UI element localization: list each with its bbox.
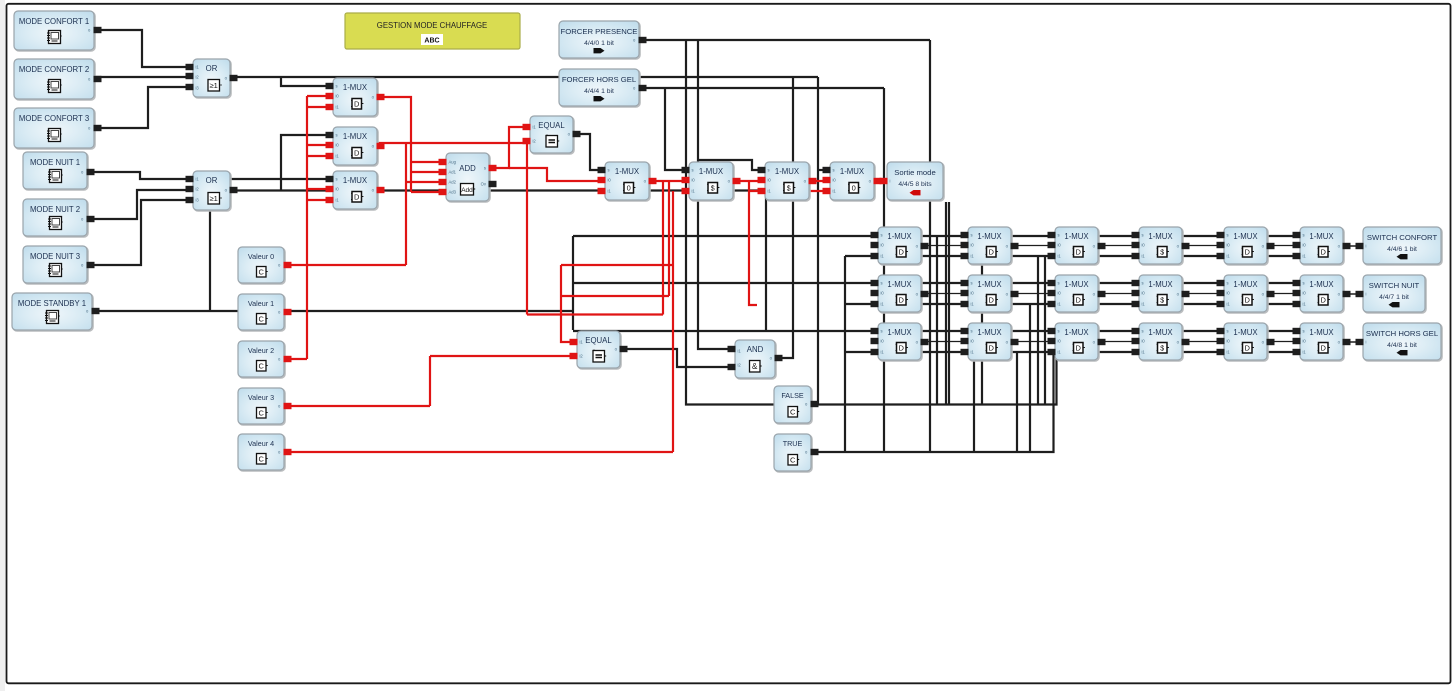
wire v-MUX1i0 [307, 95, 335, 97]
wire i0link [1267, 293, 1300, 295]
svg-text:s: s [1142, 329, 1144, 334]
wire MUX6-MUX7 [730, 180, 767, 182]
wire trunk-1030 [1029, 304, 1031, 452]
wire MC2-OR1 [94, 76, 195, 78]
wire v-MUX3i1 [307, 199, 335, 201]
svg-text:SWITCH CONFORT: SWITCH CONFORT [1367, 233, 1438, 242]
svg-text:s: s [336, 84, 338, 89]
svg-text:Valeur 2: Valeur 2 [248, 346, 274, 355]
block SWITCH HORS GEL [1363, 323, 1442, 361]
wire MSTBY [92, 310, 573, 312]
svg-text:s: s [833, 168, 835, 173]
svg-text:AND: AND [747, 345, 764, 354]
wire v-MUX3i0 [307, 188, 335, 190]
block OR U2 [193, 171, 231, 211]
svg-text:s: s [1227, 233, 1229, 238]
pads OR U1 [186, 64, 194, 70]
wire col6-SWITCH [1343, 245, 1365, 247]
block FORCER HORS GEL [559, 69, 640, 107]
block 1-MUX G21 [878, 275, 922, 313]
svg-text:s: s [881, 233, 883, 238]
block 1-MUX G24 [1139, 275, 1183, 313]
block MODE NUIT 1 [23, 152, 88, 190]
wire Valeur4 [284, 191, 673, 452]
svg-text:4/4/7 1 bit: 4/4/7 1 bit [1379, 294, 1409, 301]
wire trunk-930 [929, 40, 931, 452]
wire MN2-OR2 [87, 190, 195, 219]
svg-text:Valeur 3: Valeur 3 [248, 393, 274, 402]
wire i0link [1182, 245, 1224, 247]
wire i0link [921, 245, 968, 247]
svg-text:s: s [1058, 281, 1060, 286]
svg-text:s: s [971, 233, 973, 238]
block 1-MUX U3 [333, 78, 378, 117]
wire MUX8-Sortie [872, 180, 889, 182]
wire i0link [1182, 293, 1224, 295]
wire EQ1-MUX5s [572, 134, 607, 170]
wire red-265 [561, 264, 673, 266]
wire i0link [1267, 245, 1300, 247]
svg-text:s: s [336, 133, 338, 138]
svg-text:s: s [768, 168, 770, 173]
wire MC1-OR1 [94, 30, 195, 67]
block 1-MUX G15 [1224, 227, 1268, 265]
svg-text:4/4/0 1 bit: 4/4/0 1 bit [584, 40, 614, 47]
svg-text:1-MUX: 1-MUX [775, 167, 800, 176]
block MODE NUIT 2 [23, 199, 88, 237]
svg-text:s: s [881, 281, 883, 286]
svg-text:1-MUX: 1-MUX [977, 328, 1002, 337]
svg-text:i: i [1366, 340, 1367, 345]
wire trunk-766 [765, 191, 767, 331]
svg-text:EQUAL: EQUAL [538, 121, 565, 130]
svg-text:1-MUX: 1-MUX [887, 328, 912, 337]
block 1-MUX U9 [689, 162, 734, 201]
block Sortie mode [887, 162, 944, 201]
wire GEL-out [637, 87, 884, 89]
wire tap-669 [668, 181, 670, 296]
wire MUX1-ADD [375, 97, 411, 192]
svg-text:s: s [971, 329, 973, 334]
svg-text:Ad2: Ad2 [449, 180, 457, 185]
svg-text:MODE CONFORT 2: MODE CONFORT 2 [19, 65, 89, 74]
wire ADD-ad2 [406, 181, 448, 183]
wire ADD-ad3 [411, 191, 448, 193]
wire FALSE-line [809, 352, 1057, 405]
svg-text:MODE NUIT 2: MODE NUIT 2 [30, 205, 80, 214]
svg-text:s: s [1303, 281, 1305, 286]
svg-text:s: s [1142, 281, 1144, 286]
pads 1-MUX U8 U9 U10 U11 [598, 167, 606, 173]
block 1-MUX G36 [1300, 323, 1344, 361]
block 1-MUX U11 [830, 162, 875, 201]
block AND U13 [735, 340, 776, 379]
svg-text:SWITCH NUIT: SWITCH NUIT [1369, 281, 1420, 290]
wire sline-r2 [573, 282, 1302, 284]
block 1-MUX G35 [1224, 323, 1268, 361]
left gutter strip [0, 0, 5, 691]
pads right grid 1-MUX matrix [871, 232, 879, 238]
wire sline-r1 [573, 235, 1302, 237]
svg-text:Sortie mode: Sortie mode [894, 168, 935, 177]
svg-text:1-MUX: 1-MUX [977, 232, 1002, 241]
svg-text:s: s [1058, 233, 1060, 238]
svg-text:i: i [1366, 244, 1367, 249]
wire MN1-OR2 [87, 172, 335, 179]
svg-text:1-MUX: 1-MUX [1309, 328, 1334, 337]
block EQUAL U12 [577, 331, 621, 369]
svg-text:Ov: Ov [481, 182, 487, 187]
wire trunk-1045 [1044, 256, 1046, 405]
block 1-MUX G33 [1055, 323, 1099, 361]
svg-text:s: s [608, 168, 610, 173]
pads FORCER outputs [639, 37, 647, 43]
svg-text:1-MUX: 1-MUX [615, 167, 640, 176]
svg-text:1-MUX: 1-MUX [887, 280, 912, 289]
svg-text:Aug: Aug [449, 160, 457, 165]
block TRUE [774, 434, 812, 472]
svg-text:s: s [1227, 281, 1229, 286]
wire tap-663 [662, 181, 664, 315]
wire Valeur2-t [284, 358, 307, 360]
block MODE STANDBY 1 [12, 293, 93, 331]
svg-text:1-MUX: 1-MUX [1233, 280, 1258, 289]
svg-text:FORCER PRESENCE: FORCER PRESENCE [561, 27, 638, 36]
wire MUX5-MUX6 [647, 180, 691, 182]
block FORCER PRESENCE [559, 21, 640, 59]
block 1-MUX G34 [1139, 323, 1183, 361]
wire MN3-OR2 [87, 200, 195, 265]
wire MUX2-EQ1 [375, 142, 532, 144]
block SWITCH CONFORT [1363, 227, 1442, 265]
wire EQ2-AND [617, 349, 737, 367]
svg-text:1-MUX: 1-MUX [1148, 232, 1173, 241]
svg-text:1-MUX: 1-MUX [1064, 328, 1089, 337]
svg-text:4/4/5 8 bits: 4/4/5 8 bits [898, 181, 932, 188]
svg-text:SWITCH HORS GEL: SWITCH HORS GEL [1366, 329, 1439, 338]
block EQUAL U6 [530, 116, 574, 154]
wire red-296 [561, 295, 669, 297]
svg-text:FALSE: FALSE [781, 391, 804, 400]
wire Valeur0-up [405, 143, 407, 265]
svg-text:s: s [1142, 233, 1144, 238]
svg-text:4/4/6 1 bit: 4/4/6 1 bit [1387, 246, 1417, 253]
pads FALSE TRUE outputs [811, 401, 819, 407]
svg-text:s: s [336, 177, 338, 182]
svg-text:1-MUX: 1-MUX [1148, 328, 1173, 337]
svg-text:s: s [692, 168, 694, 173]
pads SWITCH inputs [1356, 243, 1364, 249]
wire trunk-982 [981, 246, 983, 405]
wire i0link [1098, 245, 1139, 247]
block Valeur 3 [238, 388, 285, 425]
wire OR1-MUX1s [281, 77, 335, 86]
wire red-356 [430, 355, 579, 357]
block 1-MUX G26 [1300, 275, 1344, 313]
block 1-MUX U10 [765, 162, 810, 201]
wire col6-SWITCH [1343, 293, 1365, 295]
wire trunk-818 [817, 77, 819, 405]
wire v-MUX2i1 [307, 155, 335, 157]
pads ADD U7 [439, 159, 447, 165]
svg-text:s: s [971, 281, 973, 286]
svg-text:1-MUX: 1-MUX [1309, 232, 1334, 241]
header GESTION MODE CHAUFFAGE [345, 13, 520, 49]
wire ADDS-EQ1 [488, 127, 532, 168]
svg-text:1-MUX: 1-MUX [343, 83, 368, 92]
wire FP-MUX7s [698, 160, 767, 170]
wire red-MUX8i1 [749, 190, 832, 192]
wire trunk-884 [883, 88, 885, 452]
wire OR1-out [228, 76, 818, 78]
wire TRUE-line [809, 352, 1054, 452]
wire trunk-949 [948, 202, 950, 405]
wire tap-749 [749, 181, 757, 305]
svg-text:GESTION MODE CHAUFFAGE: GESTION MODE CHAUFFAGE [377, 21, 487, 30]
block 1-MUX U8 [605, 162, 650, 201]
wire FP-mesh [686, 40, 811, 405]
block 1-MUX G12 [968, 227, 1012, 265]
wire i0link [921, 293, 968, 295]
pads mode source outputs [94, 27, 102, 33]
svg-text:1-MUX: 1-MUX [977, 280, 1002, 289]
pads Valeur outputs [284, 262, 292, 268]
svg-text:1-MUX: 1-MUX [1233, 328, 1258, 337]
svg-text:MODE CONFORT 3: MODE CONFORT 3 [19, 114, 89, 123]
pads OR U2 [186, 176, 194, 182]
wire trunk-974 [973, 352, 975, 452]
wire i0link [1098, 293, 1139, 295]
block Valeur 1 [238, 294, 285, 331]
svg-text:Ad3: Ad3 [449, 190, 457, 195]
wire red-EQ2i1 [561, 265, 579, 342]
svg-text:1-MUX: 1-MUX [1233, 232, 1258, 241]
svg-text:1-MUX: 1-MUX [887, 232, 912, 241]
block 1-MUX G11 [878, 227, 922, 265]
wire MC3-OR1 [94, 87, 195, 128]
svg-text:1-MUX: 1-MUX [1064, 232, 1089, 241]
wire sline-r3 [573, 330, 1302, 332]
svg-text:Valeur 0: Valeur 0 [248, 252, 274, 261]
wire i0link [1267, 341, 1300, 343]
block 1-MUX G22 [968, 275, 1012, 313]
wire trunk-1017 [1016, 352, 1018, 452]
wire vtrunk-307 [306, 96, 308, 359]
block MODE CONFORT 2 [14, 59, 95, 100]
svg-text:1-MUX: 1-MUX [343, 132, 368, 141]
wire AND-up [773, 77, 793, 358]
wire OR2-out [228, 189, 767, 191]
wire ADDS-MUX5 [509, 168, 607, 181]
block 1-MUX U4 [333, 127, 378, 166]
wire i0link [1011, 293, 1055, 295]
svg-text:MODE NUIT 1: MODE NUIT 1 [30, 158, 80, 167]
wire GEL-MUX6s [665, 88, 691, 170]
block 1-MUX G23 [1055, 275, 1099, 313]
wire i1line-r1 [845, 255, 1302, 257]
svg-text:TRUE: TRUE [783, 439, 803, 448]
wire MSTBY-OR2 [209, 209, 211, 311]
block FALSE [774, 386, 812, 424]
pads EQUAL U6 [523, 124, 531, 130]
block ADD U7 [446, 153, 490, 202]
block Valeur 0 [238, 247, 285, 284]
svg-text:OR: OR [206, 176, 218, 185]
wire col6-SWITCH [1343, 341, 1365, 343]
pads EQUAL U12 and AND U13 [570, 339, 578, 345]
wire ADD-ad1 [411, 171, 448, 173]
svg-text:ADD: ADD [459, 164, 476, 173]
svg-text:MODE STANDBY 1: MODE STANDBY 1 [18, 299, 86, 308]
wire i1line-r2 [845, 303, 1302, 305]
block SWITCH NUIT [1363, 275, 1426, 313]
wire trunk-946 [945, 202, 947, 405]
wire i0link [921, 341, 968, 343]
block 1-MUX G16 [1300, 227, 1344, 265]
svg-text:ABC: ABC [424, 38, 439, 45]
block MODE CONFORT 3 [14, 108, 95, 149]
wire i0link [1098, 341, 1139, 343]
svg-text:MODE CONFORT 1: MODE CONFORT 1 [19, 17, 89, 26]
svg-text:MODE NUIT 3: MODE NUIT 3 [30, 252, 80, 261]
svg-text:Valeur 1: Valeur 1 [248, 299, 274, 308]
svg-text:EQUAL: EQUAL [585, 336, 612, 345]
wire Valeur3 [284, 356, 430, 406]
block 1-MUX G13 [1055, 227, 1099, 265]
block 1-MUX G32 [968, 323, 1012, 361]
svg-text:s: s [484, 166, 486, 171]
pad Sortie mode input [880, 178, 888, 184]
svg-text:1-MUX: 1-MUX [1064, 280, 1089, 289]
block 1-MUX G14 [1139, 227, 1183, 265]
wire trunk-937 [936, 236, 938, 405]
wire i0link [1011, 341, 1055, 343]
wire i0link [1182, 341, 1224, 343]
pads 1-MUX U3 U4 U5 [326, 83, 334, 89]
svg-text:s: s [1227, 329, 1229, 334]
svg-text:1-MUX: 1-MUX [840, 167, 865, 176]
svg-text:s: s [1303, 329, 1305, 334]
wire MUX7-MUX8 [807, 180, 832, 182]
wire trunk-573 [572, 236, 574, 330]
svg-text:1-MUX: 1-MUX [699, 167, 724, 176]
block MODE NUIT 3 [23, 246, 88, 284]
svg-text:4/4/4 1 bit: 4/4/4 1 bit [584, 88, 614, 95]
svg-text:1-MUX: 1-MUX [1309, 280, 1334, 289]
wire ADD-aug [411, 161, 448, 163]
svg-text:1-MUX: 1-MUX [1148, 280, 1173, 289]
wire FP-AND [698, 40, 737, 349]
wire v-MUX2i0 [307, 144, 335, 146]
wire OR2-MUX2s [281, 135, 335, 190]
wire i0link [1011, 245, 1055, 247]
svg-text:s: s [881, 329, 883, 334]
block Valeur 4 [238, 434, 285, 471]
wire 818-MUX8s [818, 169, 832, 171]
svg-text:i: i [1366, 292, 1367, 297]
svg-text:OR: OR [206, 64, 218, 73]
svg-text:Ad1: Ad1 [449, 170, 457, 175]
wire i1line-r3 [845, 351, 1302, 353]
wire tap-527 [526, 143, 528, 315]
block 1-MUX G25 [1224, 275, 1268, 313]
svg-text:4/4/8 1 bit: 4/4/8 1 bit [1387, 342, 1417, 349]
wire trunk-1038 [1037, 256, 1039, 405]
svg-text:s: s [1303, 233, 1305, 238]
block MODE CONFORT 1 [14, 11, 95, 51]
block Valeur 2 [238, 341, 285, 378]
svg-text:Valeur 4: Valeur 4 [248, 439, 274, 448]
wire trunk-845 [844, 256, 846, 452]
svg-text:1-MUX: 1-MUX [343, 176, 368, 185]
wire FP-out [637, 39, 930, 41]
wire red-313 [527, 313, 663, 315]
svg-text:FORCER HORS GEL: FORCER HORS GEL [562, 75, 637, 84]
svg-text:s: s [1058, 329, 1060, 334]
block 1-MUX G31 [878, 323, 922, 361]
block 1-MUX U5 [333, 171, 378, 210]
wire v-MUX1i1 [307, 106, 335, 108]
svg-text:i: i [890, 179, 891, 184]
block OR U1 [193, 59, 231, 98]
wire Valeur0 [284, 264, 406, 266]
